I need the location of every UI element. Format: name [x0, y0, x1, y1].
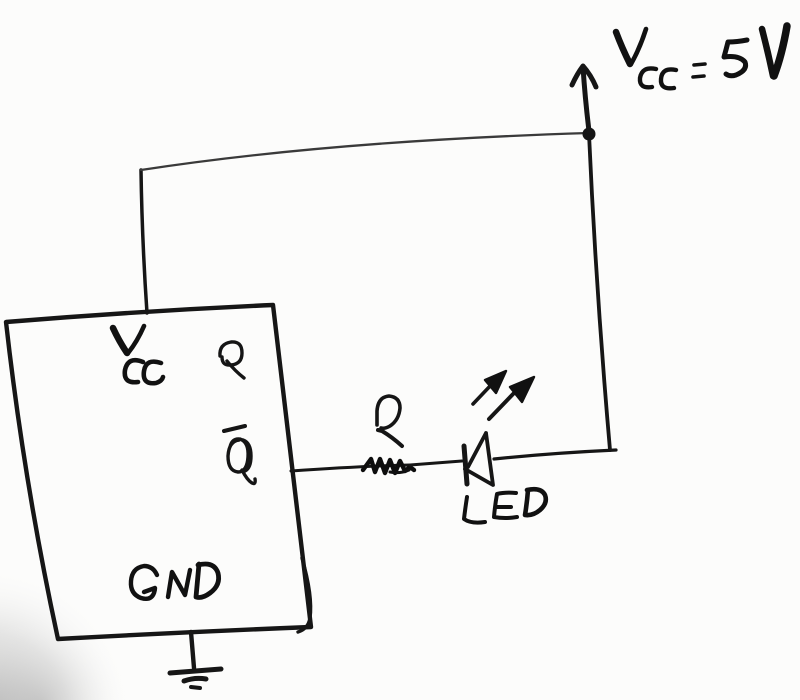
wire: Qbar output to resistor — [291, 465, 410, 471]
LED D1 triangle — [465, 433, 493, 485]
label R — [377, 396, 402, 446]
resistor R1 — [363, 459, 414, 473]
label Vcc = 5V — [616, 26, 787, 88]
label Q (output) — [220, 342, 244, 378]
label Qbar (output) — [224, 426, 255, 484]
wire: right rail (junction to corner) — [589, 134, 610, 450]
LED emission arrow 1 — [473, 384, 492, 404]
arrow to Vcc supply — [583, 67, 589, 131]
junction node — [583, 128, 596, 141]
wire: resistor to LED — [410, 461, 462, 465]
label Vcc inside box — [113, 326, 163, 383]
label LED — [464, 489, 546, 522]
LED D1 cathode bar — [464, 446, 467, 484]
IC box U1 — [6, 305, 311, 639]
wire: Vcc pin to top rail — [141, 170, 147, 313]
LED emission arrow 2 — [489, 391, 516, 419]
ground symbol — [191, 632, 194, 668]
wire: top rail — [141, 133, 589, 170]
wire: LED to right rail — [494, 450, 616, 459]
paper shading bottom-left — [0, 560, 200, 700]
IC box right-edge overdraw hook — [298, 558, 311, 632]
label GND — [131, 564, 219, 599]
